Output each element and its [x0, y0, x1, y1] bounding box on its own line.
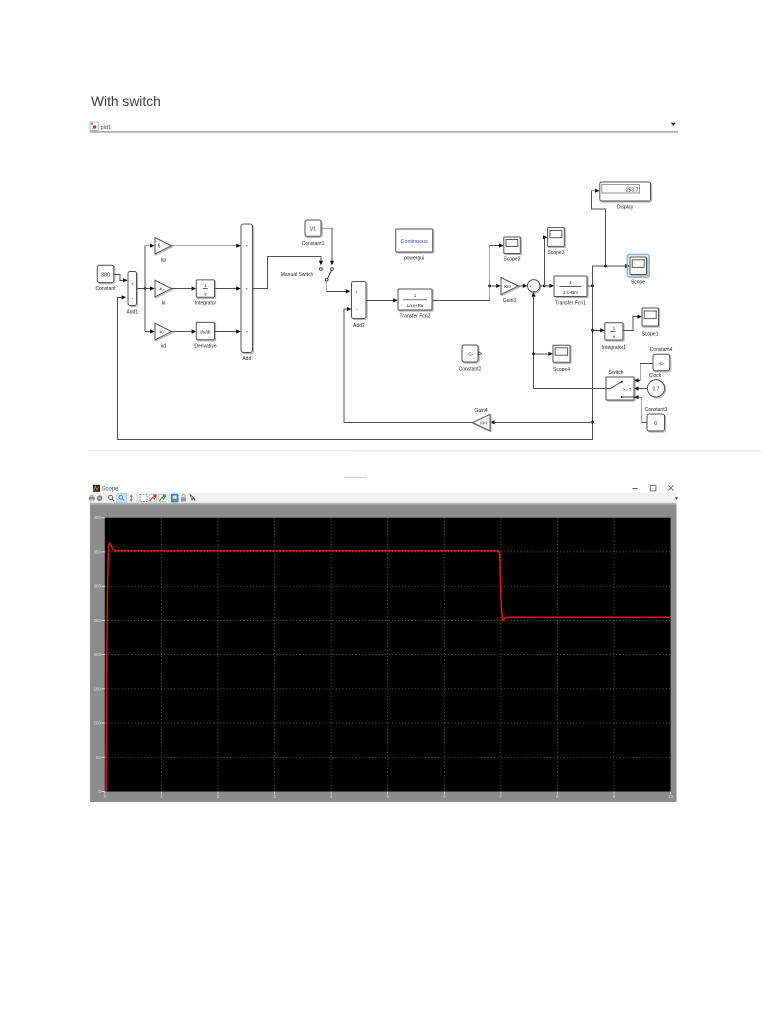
wire Gain4 to Add2 minus input — [344, 307, 473, 423]
wire feedback vertical from output node — [118, 286, 594, 440]
svg-text:Integrator1: Integrator1 — [602, 345, 626, 351]
svg-text:-C-: -C- — [658, 361, 665, 366]
svg-text:Constant4: Constant4 — [650, 347, 673, 353]
toolbar icon zoom-y — [130, 494, 133, 501]
model tab text pid1 — [101, 125, 112, 131]
svg-text:Clock: Clock — [649, 373, 662, 379]
wire Integrator to Add — [215, 286, 241, 290]
svg-text:Scope4: Scope4 — [553, 367, 570, 373]
svg-text:Display: Display — [617, 204, 634, 210]
gain kp value 6 — [155, 238, 173, 264]
svg-text:Constant3: Constant3 — [645, 407, 668, 413]
wire Constant to Add1 — [114, 274, 128, 282]
svg-text:>= 7: >= 7 — [622, 387, 632, 392]
svg-text:+: + — [529, 284, 532, 289]
toolbar overflow arrow — [675, 497, 678, 499]
wire Gain3 to sum junction — [519, 284, 528, 288]
svg-text:50: 50 — [96, 755, 101, 760]
svg-text:La.s+Ra: La.s+Ra — [407, 303, 424, 308]
svg-text:Scope: Scope — [631, 279, 645, 285]
wire node to Scope — [593, 264, 630, 286]
svg-text:+: + — [246, 244, 249, 249]
svg-text:J.s+Bm: J.s+Bm — [563, 290, 578, 295]
svg-text:0: 0 — [654, 421, 657, 427]
wire Constant1 to Manual Switch right input — [321, 228, 334, 265]
sum junction circle — [528, 280, 541, 295]
toolbar separator 1 — [105, 494, 108, 502]
gain ki — [155, 280, 173, 306]
svg-text:253.7: 253.7 — [626, 187, 639, 193]
svg-text:-K-: -K- — [158, 329, 164, 334]
scope window close button — [668, 485, 673, 490]
wire Transfer Fcn1 output node — [587, 284, 594, 287]
integrator block Integrator1 1/s — [602, 323, 626, 351]
wire branch to kp — [145, 244, 155, 248]
scope window maximize button — [650, 485, 656, 491]
toolbar separator 3 — [168, 494, 171, 502]
svg-text:Transfer Fcn2: Transfer Fcn2 — [400, 314, 431, 320]
wire Transfer Fcn2 output to Scope2 and Gain3 — [432, 244, 504, 301]
sum block Add2 — [352, 282, 368, 330]
svg-text:Scope2: Scope2 — [504, 256, 521, 262]
toolbar icon parameters blue — [171, 494, 178, 502]
wire Add1 output to branch node — [137, 287, 147, 290]
tab bar dropdown arrow — [671, 123, 676, 126]
clock block Clock value 0.7 — [647, 373, 665, 398]
svg-text:+: + — [246, 287, 249, 292]
display block Display value 253.7 — [600, 182, 652, 210]
svg-text:Add: Add — [242, 356, 251, 362]
svg-text:Constant: Constant — [95, 286, 116, 292]
constant Constant value 380 — [95, 265, 116, 292]
svg-text:200: 200 — [94, 652, 102, 657]
wire Manual Switch output to Add2 plus input — [327, 281, 351, 293]
svg-text:Scope3: Scope3 — [548, 250, 565, 256]
toolbar icon restore axes green — [159, 494, 166, 501]
svg-text:du/dt: du/dt — [200, 330, 211, 335]
svg-text:150: 150 — [94, 686, 102, 691]
svg-text:V1: V1 — [310, 227, 316, 233]
svg-text:powergui: powergui — [404, 256, 424, 262]
wire kp to Add — [172, 244, 241, 248]
scope Scope3 — [548, 228, 566, 256]
svg-text:Km: Km — [504, 284, 511, 289]
wire node to Display — [592, 189, 606, 266]
svg-text:Add1: Add1 — [126, 310, 138, 316]
svg-text:0.7: 0.7 — [653, 387, 660, 393]
wire Add2 to Transfer Fcn2 — [366, 298, 398, 302]
svg-text:250: 250 — [94, 618, 102, 623]
svg-text:Scope1: Scope1 — [642, 331, 659, 337]
scope plot grid lines — [105, 518, 671, 792]
wire branch to kd — [145, 329, 155, 333]
wire Derivative to Add — [215, 329, 241, 333]
scope window title text Scope — [102, 487, 120, 493]
wire branch vertical to kp ki kd — [144, 246, 146, 332]
svg-text:+: + — [246, 330, 249, 335]
svg-text:100: 100 — [94, 721, 102, 726]
sum block Add1 — [126, 272, 138, 316]
gain Gain3 Km — [501, 278, 520, 305]
wire ki to Integrator — [172, 286, 197, 290]
scope plot red signal trace — [106, 543, 670, 792]
svg-text:Switch: Switch — [609, 370, 624, 376]
toolbar icon settings circle — [97, 495, 103, 501]
scope plot x axis labels — [104, 794, 674, 799]
sum block Add — [241, 224, 254, 362]
toolbar icon print — [89, 495, 95, 501]
derivative block Derivative du/dt — [194, 322, 216, 349]
wire branch to ki — [145, 286, 155, 290]
toolbar icon lock — [181, 495, 186, 502]
svg-text:1: 1 — [569, 280, 572, 285]
svg-text:-K-: -K- — [158, 286, 164, 291]
svg-text:Transfer Fcn1: Transfer Fcn1 — [555, 300, 586, 306]
svg-text:ki: ki — [162, 300, 166, 306]
svg-text:1: 1 — [613, 326, 616, 331]
svg-text:pid1: pid1 — [101, 125, 112, 131]
toolbar separator 2 — [135, 494, 138, 502]
svg-text:With switch: With switch — [91, 94, 161, 109]
svg-text:380: 380 — [101, 273, 110, 279]
svg-text:-: - — [132, 296, 134, 302]
svg-text:kd: kd — [161, 343, 167, 349]
wire Switch output to sum junction and Scope4 — [531, 292, 606, 389]
scope plot axis ticks — [101, 518, 670, 795]
svg-text:350: 350 — [94, 549, 102, 554]
svg-text:kp: kp — [161, 258, 167, 264]
constant Constant2 -C- unconnected — [459, 345, 482, 372]
scope Scope selected — [627, 254, 649, 285]
svg-text:Scope: Scope — [102, 487, 120, 493]
toolbar icon full view box — [140, 494, 147, 501]
gain Gain4 Km mirrored — [473, 408, 492, 432]
scope window minimize button — [632, 488, 637, 489]
toolbar icon signal selector — [190, 495, 195, 501]
wire kd to Derivative — [172, 329, 197, 333]
svg-text:Derivative: Derivative — [194, 343, 216, 349]
scope figure background — [90, 503, 677, 802]
tab bar underline — [90, 131, 678, 132]
heading text "With switch" — [91, 94, 161, 109]
svg-text:300: 300 — [94, 584, 102, 589]
wire Constant3 to Switch — [634, 395, 647, 422]
constant Constant1 value V1 — [302, 220, 325, 247]
transfer function Transfer Fcn2 — [398, 289, 433, 320]
svg-text:Add2: Add2 — [353, 323, 365, 329]
powergui block Continuous — [396, 229, 434, 262]
wire Integrator1 to Scope1 — [623, 315, 642, 331]
svg-text:6: 6 — [158, 244, 161, 250]
svg-text:Constant1: Constant1 — [302, 241, 325, 247]
wire Constant4 to Switch — [634, 363, 653, 382]
scope Scope1 — [642, 308, 660, 337]
wire node to Gain4 — [490, 420, 593, 424]
integrator block Integrator 1/s — [195, 280, 217, 306]
svg-text:Manual Switch: Manual Switch — [281, 272, 314, 278]
toolbar icon save axes red — [149, 494, 156, 501]
svg-text:+: + — [131, 283, 134, 288]
wire node to Integrator1 — [593, 328, 605, 332]
manual switch Manual Switch — [281, 268, 334, 281]
scope window title bar — [90, 477, 677, 493]
scope Scope2 — [504, 237, 522, 262]
switch block Switch threshold 7 — [606, 370, 635, 401]
scope plot y axis labels — [94, 515, 102, 794]
svg-text:1: 1 — [204, 283, 207, 288]
toolbar icon zoom-x highlighted — [117, 494, 127, 503]
scope Scope4 — [553, 345, 571, 373]
wire sum junction to Transfer Fcn1 and Scope3 — [540, 235, 554, 288]
svg-text:10: 10 — [668, 794, 673, 799]
scope window toolbar — [90, 493, 677, 504]
wire Clock to Switch — [634, 386, 647, 390]
scope plot black axes — [105, 518, 671, 792]
svg-text:1: 1 — [414, 293, 417, 298]
scope window title icon — [93, 485, 100, 492]
svg-text:Continuous: Continuous — [401, 239, 429, 245]
svg-text:Km: Km — [480, 420, 487, 425]
gain kd — [155, 323, 173, 349]
wire Add output to Manual Switch left input — [253, 257, 324, 289]
svg-text:Integrator: Integrator — [195, 300, 217, 306]
svg-text:Gain3: Gain3 — [503, 298, 517, 304]
toolbar icon zoom — [109, 495, 114, 501]
transfer function Transfer Fcn1 — [554, 276, 588, 306]
svg-text:400: 400 — [94, 515, 102, 520]
svg-text:+: + — [355, 290, 358, 295]
svg-text:Constant2: Constant2 — [459, 366, 482, 372]
svg-text:-: - — [356, 307, 358, 313]
svg-text:Gain4: Gain4 — [474, 408, 488, 414]
diagram bottom separator line — [88, 450, 762, 451]
constant Constant3 value 0 — [645, 407, 668, 432]
svg-text:-C-: -C- — [467, 352, 474, 357]
model tab icon pid1 — [90, 122, 98, 130]
constant Constant4 -C- — [650, 347, 673, 372]
